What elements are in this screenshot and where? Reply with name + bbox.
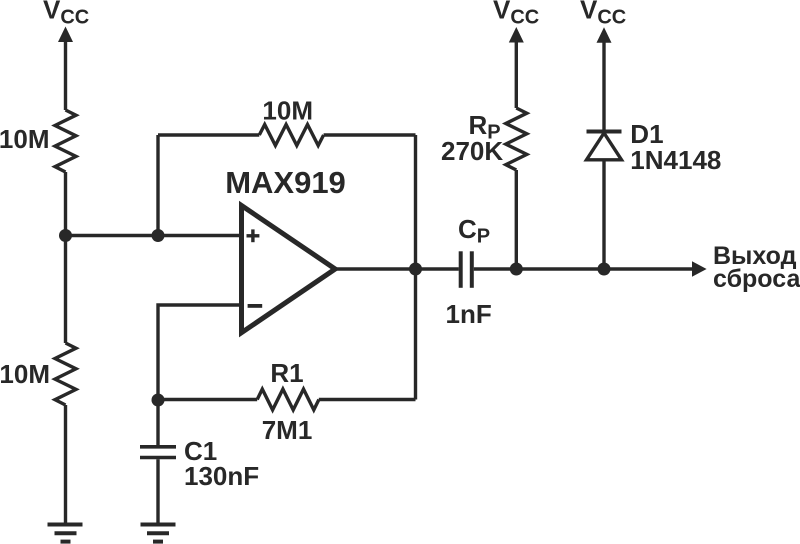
svg-text:10M: 10M [0, 359, 50, 389]
svg-text:130nF: 130nF [184, 461, 259, 491]
svg-text:1nF: 1nF [446, 299, 492, 329]
svg-text:270K: 270K [441, 136, 503, 166]
svg-text:7M1: 7M1 [262, 415, 313, 445]
svg-text:VCC: VCC [580, 0, 626, 29]
svg-text:1N4148: 1N4148 [630, 145, 721, 175]
svg-text:VCC: VCC [493, 0, 539, 29]
svg-text:10M: 10M [0, 124, 50, 154]
svg-text:сброса: сброса [713, 265, 800, 293]
svg-text:CP: CP [458, 214, 490, 248]
svg-text:VCC: VCC [43, 0, 89, 29]
svg-text:10M: 10M [262, 95, 313, 125]
svg-text:R1: R1 [270, 358, 303, 388]
svg-text:MAX919: MAX919 [225, 165, 346, 200]
